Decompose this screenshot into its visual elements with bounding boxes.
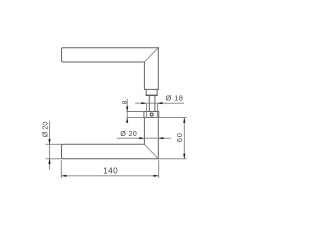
svg-text:8: 8 [121,100,128,104]
dia18 extension line right (collar edge extended) [157,104,159,118]
miter diagonal (front view) [144,144,158,159]
collar right edge [156,89,158,95]
140 right extension line [158,160,160,178]
60 dim bottom ext (bar bottom extended) [158,158,186,160]
collar bottom line [146,94,157,96]
dia20 left dim vertical line [49,121,51,170]
140 left arrow (points left) [61,175,66,177]
dia18 left arrow [141,102,146,104]
svg-text:Ø 18: Ø 18 [166,93,184,102]
stem left edge [148,95,150,111]
miter diagonal (top view) [144,48,158,62]
svg-text:60: 60 [175,132,184,142]
8-dim upper arrow (points down) [126,107,128,112]
leg left edge (top view) [143,62,145,89]
leg right edge (front view) [157,117,159,158]
leg bottom line [144,88,158,90]
rose plate (top view, edge-on) [144,112,159,118]
svg-text:140: 140 [103,167,118,176]
dia18 extension line left (collar edge extended) [146,104,148,118]
screw hole circle on plate [150,113,153,116]
140 dim line [61,175,158,177]
60 dim vertical line [183,117,185,158]
svg-text:Ø 20: Ø 20 [41,122,50,138]
dia20 mid right arrow [159,137,164,139]
8-dim extension line (plate bottom), also 60-dim top extension [126,116,186,118]
8-dim lower arrow (points up) [126,118,128,123]
dia18 dimension line [135,102,184,104]
dia20 left ext line (bar top) [46,143,62,145]
stem right edge [154,95,156,111]
collar left edge [145,89,147,95]
60 bottom arrow (points down) [183,154,185,159]
140 right arrow (points right) [154,175,159,177]
leg right edge (top view) [157,48,159,90]
grip bar outline (top view) [62,48,159,62]
dia20 left top arrow (points down) [48,139,50,144]
dia20 middle dimension line [117,137,172,139]
svg-text:Ø 20: Ø 20 [120,129,137,138]
dia20 left bottom arrow (points up) [48,159,50,164]
dia18 right arrow [157,102,162,104]
8-dim extension line (plate top) [126,111,143,113]
dia20 left ext line (bar bottom) [46,158,62,160]
leg left edge (front view) [143,117,145,144]
grip bar outline (front view) [62,144,159,159]
dia20 mid left arrow [139,137,144,139]
60 top arrow (points up) [183,118,185,123]
140 left extension line [60,160,62,178]
8-dim vertical line [126,99,128,123]
